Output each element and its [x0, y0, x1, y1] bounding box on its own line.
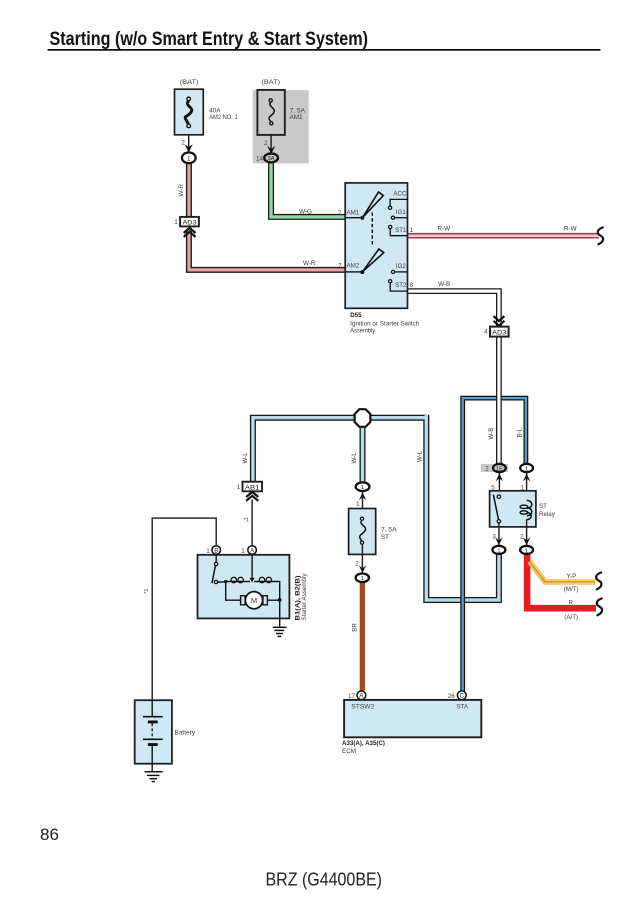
svg-text:B-L: B-L — [517, 427, 524, 437]
svg-text:14: 14 — [256, 156, 264, 163]
oval connector 1 below fuse ST — [356, 574, 369, 583]
wire W-G (fuse AM1 oval 3A down and right to ignition switch AM1 pin 2) — [271, 162, 345, 217]
svg-text:3: 3 — [492, 533, 496, 540]
svg-text:AB1: AB1 — [245, 484, 260, 491]
svg-text:ST: ST — [539, 503, 547, 510]
wire (relay coil pin 2 down to oval) — [526, 519, 528, 545]
value label 7.5A AM1 — [290, 107, 306, 121]
oval connector 1 below fuse F1 — [182, 152, 196, 163]
svg-text:STSW2: STSW2 — [351, 704, 375, 711]
oval connector 1 below relay pin 3 — [492, 546, 505, 554]
svg-text:2: 2 — [355, 561, 359, 568]
svg-text:D55: D55 — [350, 312, 362, 319]
wire R thick (ST relay pin 2 oval down and right to edge, A/T) — [527, 554, 596, 608]
wire BR (fuse ST lower oval down to ECM STSW2 pin 17) — [360, 582, 365, 690]
svg-text:1E: 1E — [496, 466, 503, 472]
circled B terminal of starter — [212, 546, 221, 555]
break symbol at R-W wire end — [598, 227, 603, 244]
svg-text:7: 7 — [338, 263, 342, 270]
chevron arrows below AB1 — [246, 492, 258, 501]
ECM A33(A), A35(C) — [344, 700, 481, 737]
gray background panel behind connector 1E — [481, 464, 508, 472]
svg-text:Relay: Relay — [539, 511, 556, 518]
svg-text:1: 1 — [174, 219, 178, 226]
svg-text:Battery: Battery — [175, 729, 196, 736]
svg-text:AM1: AM1 — [347, 209, 360, 216]
label B1(A), B2(B) Starter Assembly rotated — [294, 573, 308, 621]
oval connector 3A — [264, 154, 278, 163]
svg-text:Starter Assembly: Starter Assembly — [301, 573, 308, 621]
svg-text:A: A — [250, 548, 254, 554]
svg-text:86: 86 — [40, 825, 59, 844]
wire (oval to fuse ST) — [362, 491, 364, 517]
svg-text:W-L: W-L — [242, 452, 249, 464]
fuse F3 7.5A ST — [349, 509, 376, 555]
fuse F1 40A AM2 NO. 1 — [175, 89, 204, 135]
ground below battery — [145, 772, 163, 782]
svg-text:ECM: ECM — [342, 748, 356, 755]
svg-text:BR: BR — [352, 623, 359, 632]
svg-text:1: 1 — [410, 227, 414, 234]
svg-text:1: 1 — [241, 548, 245, 555]
svg-text:7. 5A: 7. 5A — [381, 527, 397, 534]
label R and (A/T) — [564, 600, 578, 622]
svg-text:W-L: W-L — [351, 452, 358, 464]
arrow down into oval below relay pin 2 — [523, 537, 530, 545]
svg-text:M: M — [251, 596, 257, 605]
wire R-W (ignition switch ST1 pin 1 to right edge break) — [407, 233, 599, 239]
ST relay — [490, 491, 536, 527]
value label 40A AM2 NO. 1 — [209, 107, 238, 121]
svg-text:*1: *1 — [144, 589, 150, 594]
svg-text:Assembly: Assembly — [350, 327, 376, 334]
wire W-L bus (node to connector AB1 branch) — [253, 415, 499, 600]
svg-text:1: 1 — [237, 484, 241, 491]
svg-text:(A/T): (A/T) — [564, 614, 578, 621]
svg-text:W-B: W-B — [438, 281, 450, 288]
arrow up into oval above fuse ST — [359, 493, 366, 501]
svg-text:3A: 3A — [268, 156, 275, 162]
svg-text:W-R: W-R — [178, 184, 185, 197]
wire black (starter B terminal up, left and down to battery) — [152, 518, 216, 700]
arrow down into oval below relay pin 3 — [495, 537, 502, 545]
wire (starter to ground) — [279, 600, 281, 627]
svg-text:ST2: ST2 — [395, 282, 407, 289]
oval connector 1 above fuse ST — [356, 482, 370, 491]
arrow up into oval 1 — [523, 474, 530, 482]
svg-text:2: 2 — [181, 139, 185, 146]
svg-text:1: 1 — [361, 485, 364, 491]
wire W-B (connector AD3-4 down to ST relay connector 1E) — [496, 337, 502, 465]
starter assembly B1(A), B2(B) — [198, 555, 290, 619]
battery — [135, 700, 172, 771]
arrow into oval connector 3A — [267, 146, 275, 154]
arrow into oval connector 1 — [185, 144, 193, 152]
wire (fuse F1 pin 2 to oval connector 1) — [188, 135, 190, 152]
svg-text:8: 8 — [410, 282, 414, 289]
svg-text:R-W: R-W — [438, 226, 451, 233]
label Y-P and (M/T) — [564, 573, 579, 593]
svg-text:W-G: W-G — [299, 209, 312, 216]
svg-text:W-L: W-L — [417, 450, 424, 462]
svg-text:(M/T): (M/T) — [564, 586, 579, 593]
svg-text:W-R: W-R — [303, 260, 316, 267]
svg-text:AM2: AM2 — [347, 263, 360, 270]
svg-text:1: 1 — [525, 548, 528, 554]
wire W-R (AD3-1 down and right to ignition switch AM2 pin 7) — [189, 230, 345, 270]
svg-text:IG2: IG2 — [396, 263, 407, 270]
svg-text:AD3: AD3 — [492, 329, 507, 336]
svg-text:4: 4 — [484, 328, 488, 335]
svg-text:BRZ (G4400BE): BRZ (G4400BE) — [266, 869, 383, 889]
svg-text:2: 2 — [264, 140, 268, 147]
wire (1E to relay pin 5) — [498, 473, 500, 491]
svg-text:ST1: ST1 — [395, 227, 407, 234]
svg-text:A: A — [359, 694, 363, 700]
wire (fuse ST pin 2 down to lower oval) — [361, 544, 363, 573]
svg-text:A33(A), A35(C): A33(A), A35(C) — [342, 740, 385, 747]
svg-text:(BAT): (BAT) — [180, 79, 199, 86]
connector AD3-4 — [490, 327, 509, 337]
svg-text:R-W: R-W — [564, 226, 577, 233]
label D55 Ignition or Starter Switch Assembly — [350, 312, 420, 335]
oval connector 1 below relay pin 2 — [520, 546, 533, 554]
svg-text:C: C — [460, 694, 465, 700]
node: octagon junction on W-L bus — [355, 409, 371, 427]
oval connector 1 at relay coil feed — [520, 464, 533, 473]
svg-text:IG1: IG1 — [396, 209, 407, 216]
svg-text:1: 1 — [206, 548, 210, 555]
arrow down into lower oval of fuse ST — [359, 565, 366, 572]
svg-text:1: 1 — [361, 576, 364, 582]
svg-text:AD3: AD3 — [183, 219, 198, 226]
connector 2 1E gray highlighted — [485, 464, 506, 473]
svg-text:1: 1 — [497, 548, 500, 554]
svg-text:2: 2 — [485, 466, 489, 473]
svg-text:26: 26 — [448, 693, 455, 700]
wire black (connector AB1 down to starter A terminal) — [251, 500, 253, 546]
connector AD3-1 — [180, 217, 199, 227]
fuse F2 7.5A AM1 — [257, 90, 284, 135]
wire (oval 1 to relay coil pin 1) — [526, 473, 528, 501]
svg-text:ST: ST — [381, 534, 389, 541]
wire W-R vertical (fuse AM2 oval 1 to connector AD3-1) — [186, 163, 192, 218]
svg-text:(BAT): (BAT) — [261, 79, 280, 86]
chevron arrows below AD3-1 — [184, 228, 196, 237]
wire (fuse F2 pin 2 to oval connector 3A) — [270, 135, 272, 154]
svg-text:STA: STA — [457, 704, 469, 711]
svg-text:ACC: ACC — [393, 190, 407, 197]
value label 7.5A ST — [381, 527, 397, 542]
svg-text:AM1: AM1 — [290, 114, 303, 121]
svg-text:W-B: W-B — [488, 428, 495, 440]
connector AB1 — [243, 482, 263, 492]
ignition or starter switch assembly D55 — [345, 183, 407, 308]
gray background panel behind fuse AM1 — [253, 90, 309, 163]
circled A terminal at ECM — [357, 691, 366, 700]
wire W-B (ignition switch ST2 pin 8 right and down to connector AD3-4) — [407, 291, 499, 327]
circled A terminal of starter — [248, 546, 257, 555]
wire B-L (ECM STA pin 26 up, over and down to ST relay coil connector) — [463, 398, 526, 691]
title: Starting (w/o Smart Entry & Start System) — [48, 29, 601, 50]
break symbol at R wire end — [597, 598, 602, 615]
svg-text:17: 17 — [348, 693, 355, 700]
circled C terminal at ECM — [457, 691, 466, 700]
svg-text:B: B — [214, 548, 218, 554]
break symbol at Y-P wire end — [596, 573, 601, 590]
svg-text:2: 2 — [338, 209, 342, 216]
svg-text:Starting (w/o Smart Entry & St: Starting (w/o Smart Entry & Start System… — [50, 29, 369, 50]
label ST Relay — [539, 503, 556, 518]
svg-text:1: 1 — [356, 501, 360, 508]
svg-text:2: 2 — [520, 533, 524, 540]
svg-text:AM2 NO. 1: AM2 NO. 1 — [209, 114, 238, 121]
label A33(A), A35(C) ECM — [342, 740, 385, 755]
ground below starter assembly — [273, 627, 287, 636]
svg-text:Y-P: Y-P — [567, 573, 577, 580]
arrow up into 1E — [496, 474, 503, 482]
svg-text:1: 1 — [525, 466, 528, 472]
wire (relay pin 3 down to oval) — [498, 523, 500, 546]
svg-text:R: R — [569, 600, 574, 607]
chevron arrows above AD3-4 — [494, 316, 505, 326]
wire Y-P (branch from relay pin 2 to right edge, M/T) — [530, 562, 596, 582]
svg-text:*1: *1 — [244, 518, 249, 524]
